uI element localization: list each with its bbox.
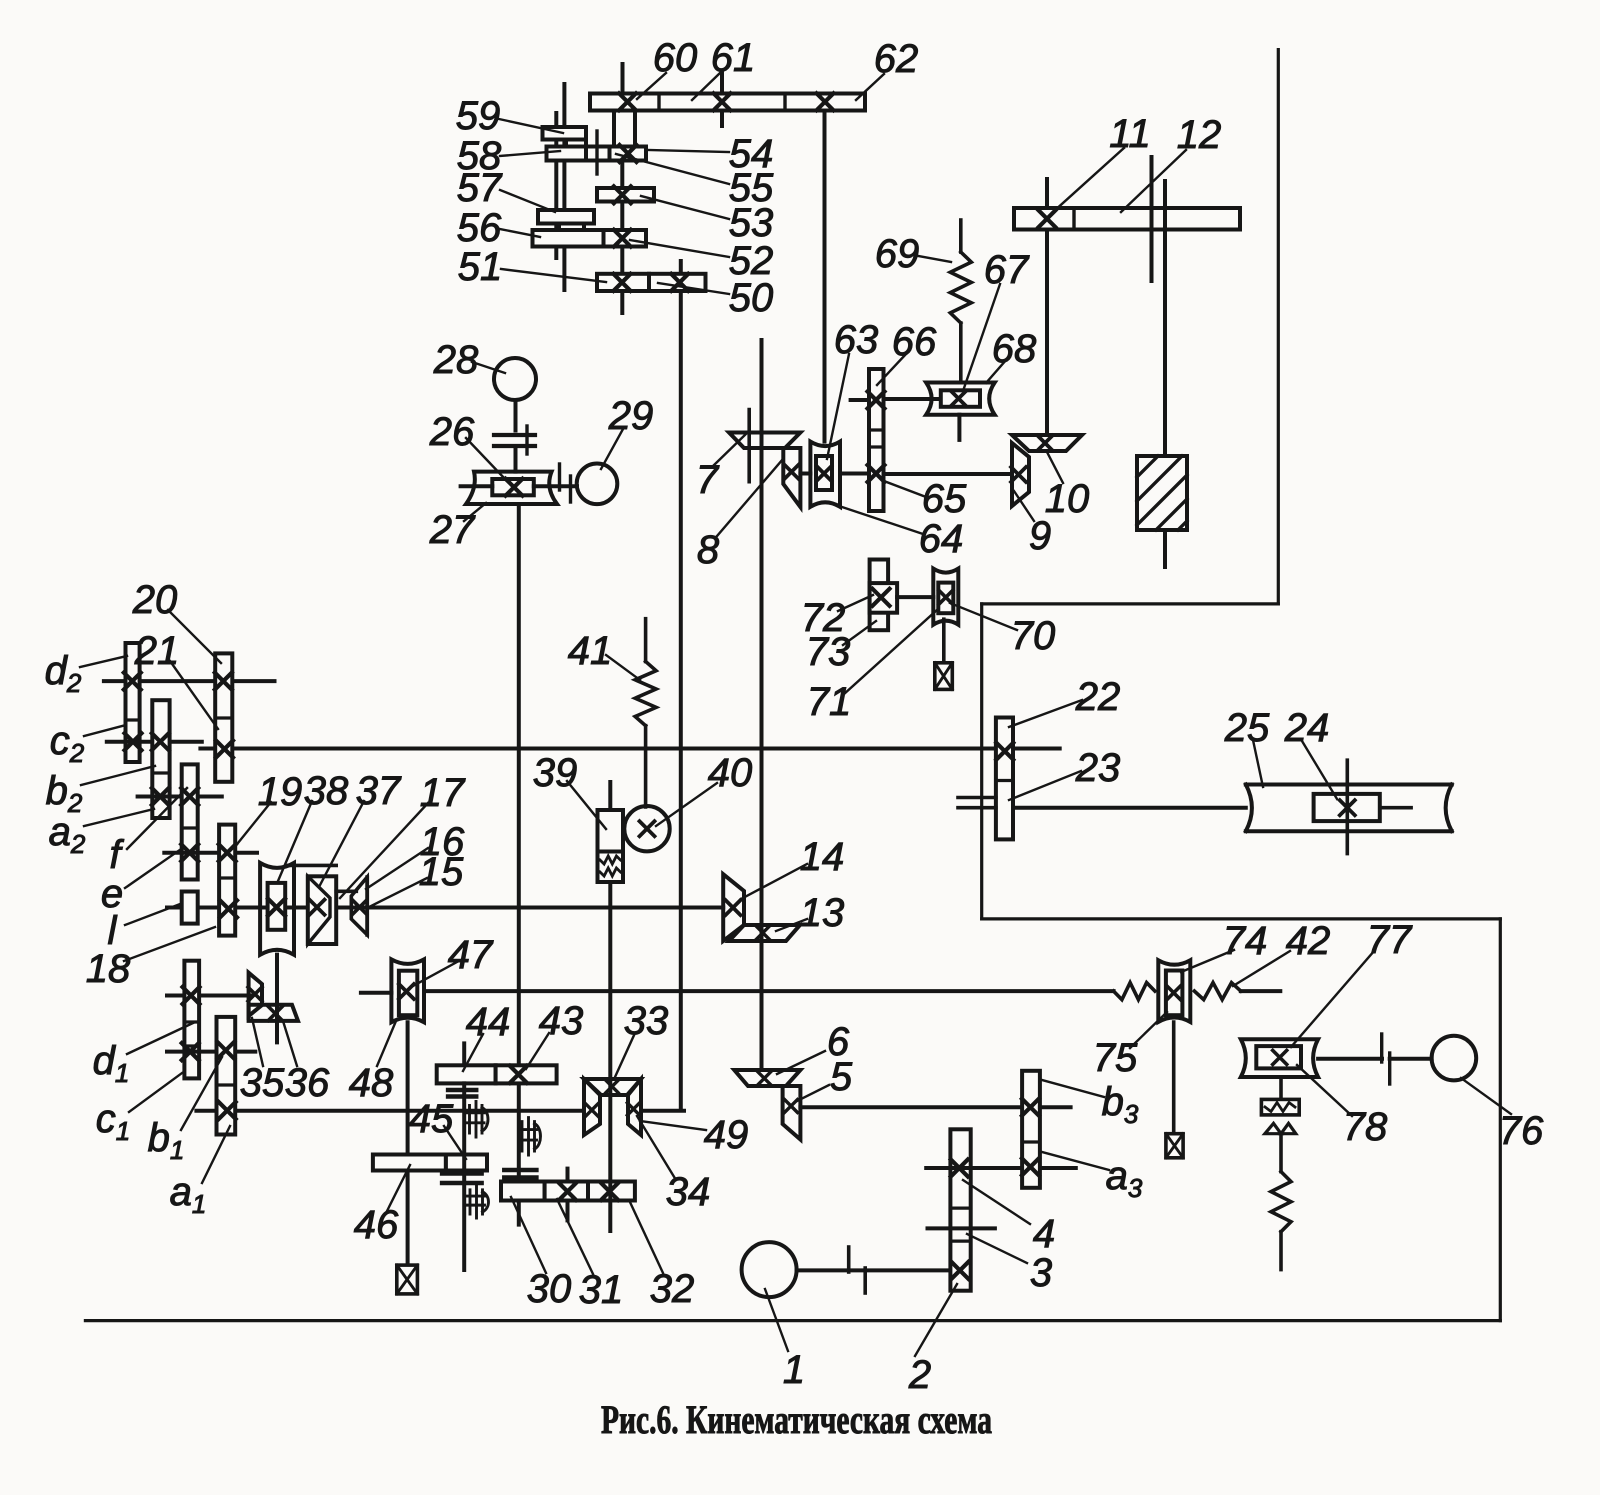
svg-text:23: 23 bbox=[1075, 746, 1121, 790]
bearing x 43 bbox=[510, 1066, 527, 1083]
divider 4/3 bbox=[950, 1206, 970, 1209]
svg-text:1: 1 bbox=[783, 1348, 805, 1392]
label 14 leader bbox=[741, 864, 807, 899]
svg-text:11: 11 bbox=[1109, 112, 1151, 156]
divider 20/21 bbox=[215, 716, 232, 719]
shaft 12 left bbox=[1150, 157, 1154, 281]
coupling 70 slider bbox=[938, 583, 953, 614]
divider b1/a1 bbox=[217, 1083, 236, 1086]
label 72 leader bbox=[838, 595, 873, 611]
label 66 leader bbox=[877, 354, 906, 385]
svg-text:44: 44 bbox=[466, 1000, 511, 1044]
svg-text:57: 57 bbox=[457, 166, 503, 210]
divider 66/65b bbox=[869, 445, 884, 448]
label 3 leader bbox=[967, 1234, 1027, 1263]
svg-text:34: 34 bbox=[666, 1170, 711, 1214]
label 75 leader bbox=[1130, 1012, 1167, 1048]
bearing x f bbox=[181, 788, 198, 805]
label d2 leader bbox=[80, 656, 127, 667]
bevel 16 cone bbox=[351, 877, 367, 935]
bearing x b2 bbox=[152, 733, 169, 750]
bearing x 51 bbox=[614, 274, 631, 291]
bearing x b3 bbox=[1022, 1099, 1039, 1116]
stub above 39 bbox=[608, 782, 612, 810]
label 64 leader bbox=[833, 504, 923, 534]
shaft 4 stub right bbox=[1040, 1166, 1076, 1170]
bearing x 21 bbox=[216, 741, 233, 758]
label 26 leader bbox=[466, 438, 506, 480]
damper 39 zigzag a bbox=[600, 856, 621, 864]
stub above 44 bbox=[462, 1043, 466, 1065]
shaft 7 second line bbox=[747, 410, 751, 482]
bearing x 70 bbox=[939, 590, 953, 604]
enclosure border mid horizontal bbox=[982, 917, 1501, 920]
svg-text:62: 62 bbox=[874, 37, 919, 81]
spring 69 upper lead bbox=[959, 220, 963, 252]
shaft e horizontal bbox=[164, 851, 257, 855]
spring 42 left bbox=[1114, 983, 1155, 1000]
svg-text:Рис.6. Кинематическая схема: Рис.6. Кинематическая схема bbox=[601, 1397, 992, 1442]
label 43 leader bbox=[526, 1033, 549, 1069]
label 20 leader bbox=[168, 610, 221, 663]
bearing x 36 bbox=[268, 1007, 282, 1021]
gear 43 bbox=[496, 1065, 557, 1083]
shaft 53 vertical bbox=[620, 161, 624, 314]
shaft c2 horizontal bbox=[107, 740, 202, 744]
label 63 leader bbox=[827, 354, 849, 459]
svg-text:65: 65 bbox=[922, 477, 967, 521]
label c2 leader bbox=[84, 725, 126, 736]
friction damper zigzag bbox=[1265, 1103, 1295, 1112]
bearing x 66 bbox=[868, 392, 885, 409]
coupling tick bbox=[525, 426, 528, 454]
hatch lines bbox=[1137, 456, 1158, 477]
bearing x c1 bbox=[182, 1043, 199, 1060]
bevel gear 14 bbox=[723, 874, 744, 941]
gear 45 bbox=[446, 1155, 487, 1171]
stub above 11 bbox=[1045, 179, 1049, 208]
label 29 leader bbox=[601, 429, 623, 469]
shaft 23 upper line bbox=[958, 796, 996, 800]
svg-text:47: 47 bbox=[448, 933, 494, 977]
label 61 leader bbox=[692, 73, 720, 100]
label 9 leader bbox=[1014, 491, 1034, 521]
worm 67 bbox=[941, 390, 980, 407]
gear 55 bbox=[586, 147, 610, 161]
bearing x 40 bbox=[640, 821, 655, 836]
svg-text:8: 8 bbox=[697, 528, 720, 572]
svg-text:29: 29 bbox=[608, 394, 654, 438]
enclosure border step left bbox=[980, 604, 983, 919]
label 53 leader bbox=[641, 196, 729, 219]
coupling 47 yoke bbox=[391, 959, 424, 1022]
label 50 leader bbox=[658, 283, 729, 294]
gear 54 bbox=[610, 147, 647, 161]
spring 69 lower lead bbox=[959, 323, 963, 383]
bearing x 72 bbox=[873, 589, 890, 606]
gear 50 bbox=[649, 274, 706, 291]
shaft 48 to spring 42 bbox=[424, 989, 1114, 993]
coupling 63 slider bbox=[816, 456, 832, 490]
label 23 leader bbox=[1009, 771, 1081, 800]
gear 30 bbox=[501, 1182, 545, 1201]
bearing x 2 bbox=[951, 1262, 968, 1279]
label 8 leader bbox=[717, 459, 783, 536]
enclosure border step top bbox=[982, 602, 1279, 605]
label 1 leader bbox=[765, 1289, 788, 1351]
svg-text:l: l bbox=[108, 909, 118, 953]
svg-text:71: 71 bbox=[807, 680, 852, 724]
label 70 leader bbox=[950, 603, 1017, 630]
bearing x 38 bbox=[268, 899, 285, 916]
coupling plate upper bbox=[494, 433, 535, 437]
label d1 leader bbox=[127, 1023, 193, 1054]
svg-text:70: 70 bbox=[1011, 614, 1056, 658]
svg-text:51: 51 bbox=[458, 245, 503, 289]
gear l block bbox=[182, 892, 198, 924]
label 19 leader bbox=[234, 802, 271, 848]
bevel gear 7 bbox=[729, 433, 800, 449]
svg-text:39: 39 bbox=[533, 751, 578, 795]
bearing x 20 bbox=[215, 673, 232, 690]
shaft d1 horizontal bbox=[167, 994, 251, 998]
gearbar 19 bbox=[219, 825, 235, 936]
gearbar b2-a2 bbox=[152, 700, 169, 818]
label 34 leader bbox=[637, 1116, 676, 1180]
label 45 leader bbox=[444, 1126, 466, 1159]
shaft vertical 59-57 inner bbox=[554, 113, 558, 258]
friction damper 78 bbox=[1261, 1099, 1299, 1115]
bevel 37 housing bbox=[308, 876, 336, 944]
label 77 leader bbox=[1291, 950, 1375, 1047]
svg-text:69: 69 bbox=[875, 232, 920, 276]
svg-text:21: 21 bbox=[134, 629, 180, 673]
spring 69 bbox=[950, 252, 971, 323]
label 6 leader bbox=[777, 1051, 825, 1074]
label 35 leader bbox=[252, 1018, 263, 1066]
coupling 44b bbox=[448, 1094, 476, 1099]
damper 39 body bbox=[598, 810, 624, 852]
label c1 leader bbox=[129, 1073, 182, 1112]
label 56 leader bbox=[500, 229, 540, 237]
gearbar d2-c2 bbox=[126, 643, 140, 762]
bearing x 47 bbox=[399, 984, 414, 999]
label b3 leader bbox=[1042, 1080, 1104, 1097]
label 39 leader bbox=[567, 781, 606, 829]
label 31 leader bbox=[557, 1199, 593, 1274]
svg-text:68: 68 bbox=[992, 327, 1037, 371]
svg-text:5: 5 bbox=[830, 1055, 853, 1099]
bearing x 5 bbox=[785, 1100, 798, 1113]
shaft inside 25 bbox=[1380, 806, 1411, 810]
bevel cluster 49 left bbox=[584, 1079, 600, 1135]
coupling tick 76a bbox=[1380, 1034, 1383, 1062]
svg-text:18: 18 bbox=[86, 947, 131, 991]
divider d2/c2 bbox=[126, 718, 140, 721]
svg-text:45: 45 bbox=[409, 1097, 454, 1141]
label 49 leader bbox=[640, 1121, 706, 1130]
label 33 leader bbox=[615, 1033, 635, 1077]
svg-text:30: 30 bbox=[527, 1267, 572, 1311]
divider 3/2 bbox=[950, 1239, 970, 1242]
label 7 leader bbox=[713, 433, 747, 466]
handwheel 28 bbox=[494, 358, 536, 400]
svg-text:17: 17 bbox=[420, 771, 466, 815]
gearbar 22-23 bbox=[996, 718, 1013, 840]
anchor box 71 bbox=[935, 663, 953, 690]
motor 1 bbox=[742, 1242, 797, 1297]
bearing x 9 bbox=[1011, 467, 1026, 482]
bevel 37 cone bbox=[308, 876, 330, 944]
bevel gear 36 bbox=[249, 1005, 298, 1021]
divider 22/23 bbox=[996, 779, 1013, 782]
label 36 leader bbox=[283, 1021, 297, 1066]
bearing x 13 bbox=[756, 926, 769, 939]
svg-text:40: 40 bbox=[708, 751, 753, 795]
hatched mass block bbox=[1137, 456, 1187, 530]
svg-text:61: 61 bbox=[711, 36, 756, 80]
gear 59 bbox=[543, 127, 587, 140]
ratchet 44 bbox=[470, 1102, 483, 1138]
gear 32 bbox=[588, 1182, 635, 1201]
svg-text:59: 59 bbox=[456, 94, 501, 138]
enclosure border bottom bbox=[85, 1319, 1500, 1322]
wheel 40 bbox=[624, 806, 669, 851]
shaft 66 to worm 67 bbox=[884, 397, 942, 401]
anchor box 75 bbox=[1166, 1134, 1183, 1158]
divider 11/12 bbox=[1072, 208, 1075, 230]
coupling 30a bbox=[504, 1168, 536, 1173]
label 65 leader bbox=[884, 481, 926, 497]
divider d1/c1a bbox=[184, 1020, 199, 1023]
shaft III horizontal bbox=[196, 1109, 584, 1113]
gearbar 20-21 bbox=[215, 653, 232, 781]
label l leader bbox=[125, 904, 180, 925]
svg-text:12: 12 bbox=[1177, 113, 1222, 157]
svg-text:43: 43 bbox=[539, 999, 584, 1043]
enclosure border right lower bbox=[1499, 919, 1502, 1321]
label 18 leader bbox=[124, 927, 215, 961]
bearing x 63 bbox=[817, 466, 832, 481]
worm gear 68 body bbox=[926, 383, 995, 415]
gearbar b3-a3 bbox=[1022, 1071, 1040, 1188]
label 13 leader bbox=[776, 919, 807, 931]
shaft 42 right end bbox=[1241, 989, 1281, 993]
label b2 leader bbox=[81, 766, 155, 785]
bracket 37-15 bbox=[336, 889, 356, 893]
label 68 leader bbox=[986, 359, 1007, 383]
label 55 leader bbox=[616, 154, 729, 184]
shaft II horizontal bbox=[167, 906, 723, 910]
bevel cluster 33 top bbox=[584, 1079, 641, 1095]
shaft 28 vertical bbox=[514, 400, 518, 431]
anchor box 46 bbox=[397, 1265, 418, 1294]
label 71 leader bbox=[844, 610, 937, 694]
bearing x 11 bbox=[1039, 210, 1056, 227]
label 51 leader bbox=[501, 269, 606, 282]
bearing x 33 bbox=[606, 1080, 618, 1092]
stub above 61 bbox=[720, 71, 724, 94]
svg-text:13: 13 bbox=[800, 891, 845, 935]
shaft to handwheel 76 bbox=[1390, 1057, 1432, 1061]
svg-text:31: 31 bbox=[579, 1268, 624, 1312]
svg-text:37: 37 bbox=[356, 769, 402, 813]
label 46 leader bbox=[387, 1165, 410, 1211]
svg-text:77: 77 bbox=[1367, 918, 1413, 962]
shaft vertical 59-57 outer bbox=[562, 84, 566, 290]
label 58 leader bbox=[500, 151, 560, 156]
shaft below 74 bbox=[1172, 1022, 1176, 1134]
coupling 77 slider bbox=[1256, 1046, 1301, 1068]
gear 73 bar bbox=[870, 560, 889, 631]
shaft 24 vertical bbox=[1346, 760, 1350, 853]
coupling tick 76b bbox=[1388, 1053, 1391, 1084]
gear 72 hub bbox=[870, 583, 898, 613]
label 48 leader bbox=[377, 1021, 396, 1066]
coupling 30b bbox=[504, 1175, 536, 1180]
spring 42 right bbox=[1194, 983, 1240, 1000]
bearing x 54 bbox=[620, 145, 637, 162]
shaft below 38 bbox=[275, 955, 279, 1043]
stub below 31 bbox=[566, 1201, 570, 1221]
spring 41 upper lead bbox=[644, 619, 648, 662]
bearing x 37 bbox=[310, 900, 325, 915]
shaft below mass bbox=[1163, 530, 1167, 567]
label 78 leader bbox=[1297, 1065, 1352, 1116]
label 69 leader bbox=[913, 255, 951, 262]
coupling 48 slider bbox=[399, 971, 417, 1016]
gearbar f-e bbox=[182, 764, 198, 879]
svg-text:50: 50 bbox=[729, 276, 774, 320]
divider f/e bbox=[182, 826, 198, 829]
shaft 4 horizontal bbox=[926, 1166, 1022, 1170]
label 57 leader bbox=[500, 190, 555, 212]
shaft vertical 50-49 bbox=[679, 261, 683, 1109]
svg-text:76: 76 bbox=[1499, 1109, 1544, 1153]
gear 59 step bbox=[566, 140, 586, 148]
svg-text:78: 78 bbox=[1343, 1105, 1388, 1149]
bearing x a2 bbox=[152, 788, 169, 805]
bearing x 19b bbox=[220, 900, 237, 917]
coupling plate lower bbox=[494, 444, 535, 448]
bearing x a1 bbox=[219, 1102, 236, 1119]
shaft a2 horizontal bbox=[138, 795, 222, 799]
bearing x 49 bbox=[586, 1104, 598, 1116]
gear 46 bbox=[373, 1155, 446, 1171]
label e leader bbox=[125, 847, 184, 888]
bearing x 35 bbox=[248, 987, 262, 1001]
bearing x a3 bbox=[1022, 1158, 1039, 1175]
bevel gear 10 bbox=[1012, 435, 1082, 451]
svg-text:35: 35 bbox=[240, 1061, 285, 1105]
bearing x 32 bbox=[601, 1183, 618, 1200]
shaft below triangles bbox=[1279, 1134, 1283, 1172]
worm wheel 27 body bbox=[466, 472, 557, 504]
gearbar 66-65 bbox=[869, 369, 884, 511]
shaft 23 lower line bbox=[958, 806, 996, 810]
svg-text:49: 49 bbox=[704, 1113, 749, 1157]
shaft 44 down bbox=[462, 1083, 466, 1270]
bearing x b1 bbox=[217, 1042, 234, 1059]
shaft 12 right bbox=[1163, 181, 1167, 456]
bearing x 4 bbox=[951, 1160, 968, 1177]
spring 78 lower lead bbox=[1279, 1232, 1283, 1270]
bevel gear 5 bbox=[783, 1086, 801, 1140]
bevel gear 35 bbox=[249, 973, 262, 1016]
svg-text:28: 28 bbox=[433, 338, 479, 382]
svg-text:15: 15 bbox=[419, 850, 464, 894]
svg-text:42: 42 bbox=[1286, 919, 1331, 963]
svg-text:75: 75 bbox=[1093, 1036, 1138, 1080]
gearbar b1-a1 bbox=[217, 1017, 236, 1135]
bearing x 67 bbox=[951, 391, 966, 406]
bearing x 77 bbox=[1273, 1050, 1287, 1064]
gearbar d1-c1 bbox=[184, 961, 199, 1079]
svg-text:7: 7 bbox=[696, 458, 720, 502]
label 47 leader bbox=[413, 962, 457, 986]
bearing x 61 bbox=[714, 93, 731, 110]
shaft 65 to 9 bbox=[884, 472, 1013, 476]
label 28 leader bbox=[472, 362, 505, 373]
bearing x 10 bbox=[1038, 436, 1053, 451]
divider d1/c1b bbox=[184, 1044, 199, 1047]
ramp triangles b bbox=[1281, 1123, 1296, 1133]
svg-text:22: 22 bbox=[1075, 675, 1121, 719]
bearing x 34 bbox=[627, 1103, 639, 1115]
bearing x 62 bbox=[817, 93, 834, 110]
gear 53 bbox=[597, 188, 654, 202]
spline shaft 25 bbox=[1246, 785, 1452, 832]
coupling 44a bbox=[448, 1088, 476, 1093]
bearing x 50 bbox=[671, 274, 688, 291]
spring below 78 bbox=[1271, 1172, 1291, 1232]
gearbar 60-61-62 bbox=[590, 94, 865, 111]
shaft 1 to 2 bbox=[797, 1268, 951, 1272]
bearing x 19 bbox=[219, 844, 236, 861]
bearing x 65 bbox=[868, 465, 885, 482]
divider b2/a2 bbox=[152, 771, 169, 774]
label 54 leader bbox=[648, 150, 729, 152]
shaft right of 26 bbox=[534, 484, 577, 488]
shaft 38-36 vertical bbox=[275, 955, 279, 1043]
handwheel 29 bbox=[577, 464, 618, 505]
coupling 78 yoke bbox=[1241, 1039, 1318, 1077]
label 42 leader bbox=[1233, 951, 1290, 986]
label a1 leader bbox=[202, 1126, 230, 1183]
spring 41 bbox=[635, 662, 656, 726]
svg-text:4: 4 bbox=[1033, 1212, 1055, 1256]
shaft 39 to 33 bbox=[608, 882, 612, 1231]
gear 57 bbox=[538, 210, 594, 224]
svg-text:10: 10 bbox=[1045, 477, 1090, 521]
bearing x d1 bbox=[183, 987, 200, 1004]
svg-text:14: 14 bbox=[800, 835, 845, 879]
bearing x 74 bbox=[1167, 986, 1181, 1000]
coupling 38 yoke bbox=[260, 863, 294, 955]
gearbar 11-12 bbox=[1014, 208, 1240, 230]
label f leader bbox=[127, 788, 187, 849]
label b1 leader bbox=[181, 1057, 222, 1130]
label 27 leader bbox=[464, 503, 486, 521]
label 73 leader bbox=[843, 621, 876, 645]
spring 41 lower lead bbox=[644, 726, 648, 807]
bevel gear 13 bbox=[729, 925, 800, 941]
stub left of 66 bbox=[851, 398, 869, 402]
shaft 72 to 70 bbox=[897, 595, 933, 599]
shaft vertical 7-13-6 bbox=[760, 340, 764, 1070]
label 21 leader bbox=[170, 661, 218, 729]
gear 58 bbox=[547, 147, 587, 161]
